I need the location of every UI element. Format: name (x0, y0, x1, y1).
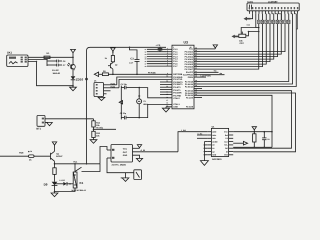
connector SK1 (7, 52, 28, 67)
svg-text:BC547: BC547 (56, 155, 63, 158)
net arrow crystal left (119, 101, 122, 104)
svg-text:VCC: VCC (123, 147, 128, 150)
U3 pin name text left column (173, 48, 183, 109)
P1 stub end ticks (145, 48, 147, 68)
svg-text:ADC0831: ADC0831 (212, 158, 222, 161)
svg-text:P0.7/AD7: P0.7/AD7 (185, 68, 193, 71)
svg-text:XTAL2: XTAL2 (173, 97, 180, 100)
wire P0.0 to LCD (200, 14, 285, 52)
resistor R15 (92, 131, 101, 137)
svg-text:P3.4/T0: P3.4/T0 (173, 86, 181, 89)
ground below R15 (90, 138, 97, 144)
wire sensor pin2 loop to thermistor (107, 158, 134, 173)
U3 pin number ticks right (195, 47, 197, 96)
svg-text:C2 33p: C2 33p (120, 112, 127, 115)
IC U3 microcontroller (172, 41, 194, 109)
power VCC arrow ADC (252, 127, 256, 132)
svg-text:+5 Vdc: +5 Vdc (96, 127, 104, 130)
svg-text:GND: GND (173, 106, 178, 109)
svg-text:D1+D2: D1+D2 (52, 69, 59, 72)
svg-text:1_IN2: 1_IN2 (181, 129, 186, 132)
connector J1 serial (94, 80, 119, 97)
capacitor C5 on top rail (156, 44, 163, 52)
zener diode ZD10 (71, 70, 84, 86)
relay K1 coil (72, 160, 87, 192)
power VCC arrow Q1 (52, 142, 56, 151)
wire ADC VCC rail (233, 131, 272, 133)
capacitor C8 (262, 132, 269, 148)
wire serial RXD row (119, 80, 172, 88)
svg-text:P6 R10k: P6 R10k (148, 71, 157, 74)
svg-text:ale: ale (220, 72, 223, 75)
crystal Y1 (137, 88, 149, 118)
wire LCD pin doglegs (259, 14, 298, 29)
wire P2.2 to ADC CS rail (200, 95, 273, 147)
IC U1 ADC (211, 126, 228, 162)
crystal circuit left rail (120, 86, 122, 120)
wire P1 bus stubs (147, 49, 166, 66)
ground below U3 (162, 107, 169, 112)
label diodes (52, 69, 61, 75)
label PSEN net (200, 74, 211, 77)
wire sensor OUT to ADC (133, 129, 208, 152)
svg-text:1k: 1k (30, 150, 32, 153)
svg-text:P3.3/INT1: P3.3/INT1 (173, 83, 183, 86)
svg-text:LCD8160: LCD8160 (268, 0, 278, 3)
node +5V tap (93, 127, 116, 132)
node reset junction (112, 74, 114, 76)
resistor R5 on reset wire (102, 70, 108, 76)
potentiometer RV1 (239, 31, 260, 45)
wire P2.6 to LCD RW (200, 14, 293, 84)
wire vertical opto branch (46, 59, 47, 66)
svg-text:AIN0: AIN0 (212, 131, 216, 134)
wire LCD VO to pot (241, 14, 259, 34)
wire SK1 pin2 (28, 58, 47, 60)
ground below D9 (51, 193, 58, 197)
svg-text:P3.6/WR: P3.6/WR (173, 92, 182, 95)
node A junction (72, 57, 74, 59)
svg-text:XTAL1: XTAL1 (173, 103, 180, 106)
svg-text:P2.5/A13: P2.5/A13 (185, 85, 193, 88)
sensor U2 box (107, 145, 133, 167)
resistor R18 (253, 132, 256, 148)
net arrow reset left (94, 72, 102, 76)
thermistor TH1 (107, 150, 142, 180)
wire ADC bottom rail (233, 147, 272, 149)
svg-text:Q2: Q2 (115, 63, 117, 66)
ground below J1 (98, 97, 105, 101)
wire ADC address common rail (204, 142, 208, 161)
svg-text:SK1: SK1 (7, 52, 13, 55)
svg-text:D9: D9 (44, 183, 48, 187)
U3 pin number ticks left (166, 47, 168, 108)
resistor R14 (92, 121, 101, 127)
svg-text:A0: A0 (212, 144, 214, 147)
svg-text:Ref: Ref (225, 134, 228, 137)
net arrow ADC CLK right (233, 141, 247, 145)
power VCC arrow U3 pin40 (200, 45, 218, 49)
wire D9 ground row to relay (55, 188, 76, 192)
svg-text:L1 D2: L1 D2 (60, 179, 65, 182)
ground below ZD10 (70, 86, 77, 91)
net label boxes on LCD wires (258, 20, 291, 23)
svg-text:LCD-PSEN: LCD-PSEN (201, 74, 212, 77)
svg-text:RST/PRB: RST/PRB (173, 73, 183, 76)
wire ALE row (200, 72, 225, 75)
U1 right pin stubs (229, 132, 234, 155)
wire P2.5 to LCD EN (200, 14, 296, 87)
wire ADC ref stub (197, 132, 207, 138)
wire base input with resistor R16 (0, 150, 51, 161)
capacitor C3 (129, 47, 140, 76)
node Q1 emitter junction (54, 163, 56, 165)
transistor Q1 (51, 151, 64, 164)
transistor Q2 reset (108, 62, 117, 75)
connector LCD1 (247, 0, 299, 10)
U1 left pin stubs (207, 132, 211, 155)
svg-text:+5v: +5v (214, 70, 217, 73)
wire relay common up to sensor (100, 147, 107, 164)
svg-text:P3.7/RD: P3.7/RD (173, 94, 181, 97)
svg-text:+ C5: + C5 (156, 44, 161, 47)
wire BT1 to R14 (45, 118, 94, 121)
wire Q1 to relay contact (55, 163, 101, 165)
node ZD10 bottom junction (72, 85, 74, 87)
svg-text:AIN+: AIN+ (212, 134, 216, 137)
svg-text:A_IN: A_IN (141, 149, 146, 152)
wire EA row (200, 70, 219, 73)
ground on thermistor loop (121, 173, 129, 182)
resistor R4 reset pullup (105, 56, 115, 64)
svg-text:AIN-: AIN- (212, 137, 216, 140)
wire serial TXD row (117, 77, 172, 85)
svg-text:P3.5/T1: P3.5/T1 (173, 89, 181, 92)
svg-text:A1: A1 (212, 147, 214, 150)
LCD pin stubs (249, 11, 297, 14)
svg-text:C8: C8 (267, 138, 269, 141)
node D9 bottom junction (54, 191, 56, 193)
svg-text:1N4148: 1N4148 (53, 72, 61, 75)
svg-text:P2.1/A9: P2.1/A9 (186, 96, 193, 99)
ground sensor (133, 155, 143, 162)
svg-text:U3: U3 (184, 41, 188, 45)
svg-text:C3: C3 (130, 57, 134, 60)
svg-text:P2.0/A8: P2.0/A8 (186, 106, 194, 109)
svg-text:V_RC: V_RC (198, 132, 203, 135)
net arrow pot left (232, 35, 239, 39)
U3 left pin stubs (160, 49, 172, 107)
capacitor contact pair 1 (47, 60, 66, 63)
diode D2 horizontal (55, 179, 74, 185)
wire P2.7 to LCD RS (200, 14, 289, 82)
svg-text:ZD10: ZD10 (76, 77, 84, 81)
svg-text:MOSFET/RELAY: MOSFET/RELAY (72, 189, 87, 192)
wire reset row to U3 (108, 71, 172, 74)
wire crystal to XTAL2 (139, 88, 172, 98)
wire P0.6 to LCD (200, 14, 263, 67)
wire P0.7 to LCD (200, 14, 259, 69)
svg-text:P3.1/TXD: P3.1/TXD (173, 78, 182, 81)
resistor R1 on top wire (44, 52, 50, 59)
U3 pin name text right column (183, 48, 194, 109)
svg-text:BT1: BT1 (36, 127, 41, 130)
relay contact blade (75, 164, 100, 172)
wire P2.3 loop to ADC DO (200, 93, 296, 152)
capacitor C2 (120, 112, 140, 120)
wire SK1 pin3 down-around to ZD10 ground (28, 61, 73, 86)
svg-text:K1: K1 (80, 181, 84, 185)
wire P0.1 to LCD (200, 14, 281, 54)
svg-text:C1 33p: C1 33p (121, 83, 128, 86)
power VCC arrow sensor (133, 145, 142, 149)
svg-text:GND: GND (123, 154, 128, 157)
wire crystal to XTAL1 (139, 105, 172, 118)
net arrow VSS left (244, 14, 253, 27)
capacitor C1 (121, 83, 140, 90)
U3 right pin stubs (194, 49, 202, 98)
svg-text:PSEN: PSEN (188, 76, 194, 79)
svg-text:A2: A2 (212, 150, 214, 153)
svg-text:LCD1: LCD1 (247, 0, 253, 3)
wire P2.4 loop to ADC CLK (200, 91, 292, 149)
svg-text:GND: GND (212, 154, 217, 157)
battery BT1 (36, 116, 45, 131)
LED D9 (44, 182, 58, 193)
svg-text:AGND: AGND (212, 140, 218, 143)
wire P0.2 to LCD (200, 14, 278, 57)
U1 pin texts (212, 131, 218, 157)
wire P0.5 to LCD (200, 14, 266, 64)
svg-text:VCC: VCC (189, 48, 194, 51)
wire P0.3 to LCD (200, 14, 274, 59)
LCD pin marks (249, 7, 299, 9)
wire SK1 pin1 to node (28, 56, 73, 58)
wire P0.4 to LCD (200, 14, 270, 62)
capacitor contact pair 2 (47, 64, 66, 67)
power VCC arrow top-left (71, 49, 76, 57)
opto transistor Q3 (67, 57, 75, 70)
resistor R17 below Q1 (53, 164, 56, 182)
ground below ADC (200, 161, 208, 166)
svg-text:ACT/TC_MODE: ACT/TC_MODE (112, 164, 127, 167)
ground right of BT1 (45, 123, 52, 126)
wire main vertical rail with rounded top (86, 47, 166, 164)
power arrow on top rail (111, 48, 116, 56)
